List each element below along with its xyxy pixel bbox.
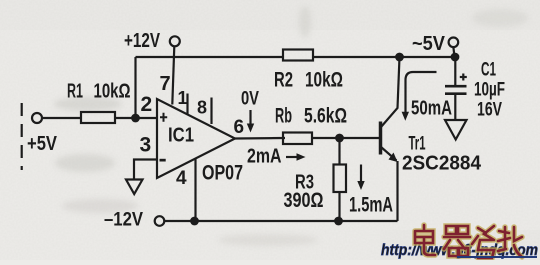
svg-text:390Ω: 390Ω bbox=[284, 189, 324, 212]
node output top bbox=[452, 54, 459, 61]
svg-text:0V: 0V bbox=[241, 89, 259, 110]
wire top rail right bbox=[313, 56, 455, 58]
arrow 50mA bbox=[402, 72, 437, 121]
node B bbox=[336, 135, 343, 142]
op-amp plus sign bbox=[160, 113, 167, 122]
arrow 0V bbox=[247, 110, 254, 133]
ground under pin3 bbox=[126, 180, 143, 195]
svg-text:Tr1: Tr1 bbox=[409, 134, 426, 155]
svg-text:3: 3 bbox=[140, 134, 152, 157]
svg-text:IC1: IC1 bbox=[168, 125, 194, 147]
wire pin7 bbox=[172, 46, 174, 104]
svg-text:4: 4 bbox=[176, 168, 187, 189]
svg-text:8: 8 bbox=[197, 98, 207, 118]
svg-text:Rb: Rb bbox=[275, 105, 292, 128]
svg-text:10kΩ: 10kΩ bbox=[305, 69, 343, 92]
arrow 2mA bbox=[286, 153, 306, 160]
svg-text:R1: R1 bbox=[67, 81, 83, 103]
wire pin4 bbox=[194, 158, 196, 220]
input dashed line bbox=[21, 103, 23, 170]
wire collector bbox=[381, 57, 400, 127]
node pin4 rail bbox=[191, 218, 198, 225]
svg-text:7: 7 bbox=[160, 73, 171, 95]
wire input to R1 bbox=[42, 117, 82, 119]
wire Rb to base bbox=[313, 137, 379, 139]
wire output to Rb bbox=[235, 137, 285, 140]
watermark bbox=[381, 225, 538, 259]
svg-text:16V: 16V bbox=[477, 99, 502, 121]
svg-text:2mA: 2mA bbox=[247, 146, 282, 168]
wire R1 to node A bbox=[115, 117, 157, 119]
node R3 rail bbox=[335, 218, 342, 225]
resistor R2 bbox=[283, 50, 313, 61]
pin 1 stub bbox=[186, 94, 188, 115]
svg-text:10µF: 10µF bbox=[474, 79, 505, 101]
svg-text:~5V: ~5V bbox=[412, 33, 446, 55]
resistor R3 bbox=[334, 165, 347, 193]
input terminal bbox=[32, 113, 42, 123]
wire bottom rail bbox=[164, 220, 398, 222]
transistor Tr1 2SC2884 bbox=[381, 122, 398, 222]
node collector top bbox=[396, 54, 403, 61]
svg-text:2: 2 bbox=[141, 93, 153, 116]
resistor Rb bbox=[283, 133, 312, 145]
wire top rail left bbox=[136, 56, 284, 58]
~5V terminal bbox=[449, 38, 459, 48]
svg-text:1: 1 bbox=[178, 88, 188, 108]
svg-text:2SC2884: 2SC2884 bbox=[402, 153, 482, 175]
svg-text:+5V: +5V bbox=[27, 133, 58, 155]
capacitor C1 bbox=[445, 57, 467, 120]
svg-text:50mA: 50mA bbox=[411, 98, 452, 120]
svg-text:–12V: –12V bbox=[104, 210, 143, 231]
node A bbox=[132, 115, 139, 122]
wire pin3 to ground bbox=[134, 160, 157, 180]
svg-text:10kΩ: 10kΩ bbox=[94, 81, 131, 103]
+12V terminal bbox=[170, 36, 180, 46]
svg-text:1.5mA: 1.5mA bbox=[349, 194, 393, 217]
wire node B down bbox=[338, 138, 340, 165]
arrow 1.5mA bbox=[357, 165, 364, 191]
op-amp IC1 triangle bbox=[157, 99, 235, 178]
resistor R1 bbox=[81, 112, 115, 123]
ground under C1 bbox=[445, 120, 467, 140]
op-amp minus sign bbox=[160, 159, 166, 162]
svg-text:6: 6 bbox=[234, 117, 245, 138]
svg-text:C1: C1 bbox=[481, 60, 496, 81]
svg-text:5.6kΩ: 5.6kΩ bbox=[304, 105, 347, 128]
pin 8 stub bbox=[210, 98, 212, 125]
wire node A up bbox=[134, 57, 136, 118]
-12V terminal bbox=[155, 216, 165, 226]
svg-text:OP07: OP07 bbox=[202, 162, 243, 185]
svg-text:R2: R2 bbox=[274, 69, 293, 92]
wire ~5V stub bbox=[453, 47, 454, 57]
wire R3 to rail bbox=[338, 192, 340, 221]
svg-text:+12V: +12V bbox=[124, 30, 161, 52]
